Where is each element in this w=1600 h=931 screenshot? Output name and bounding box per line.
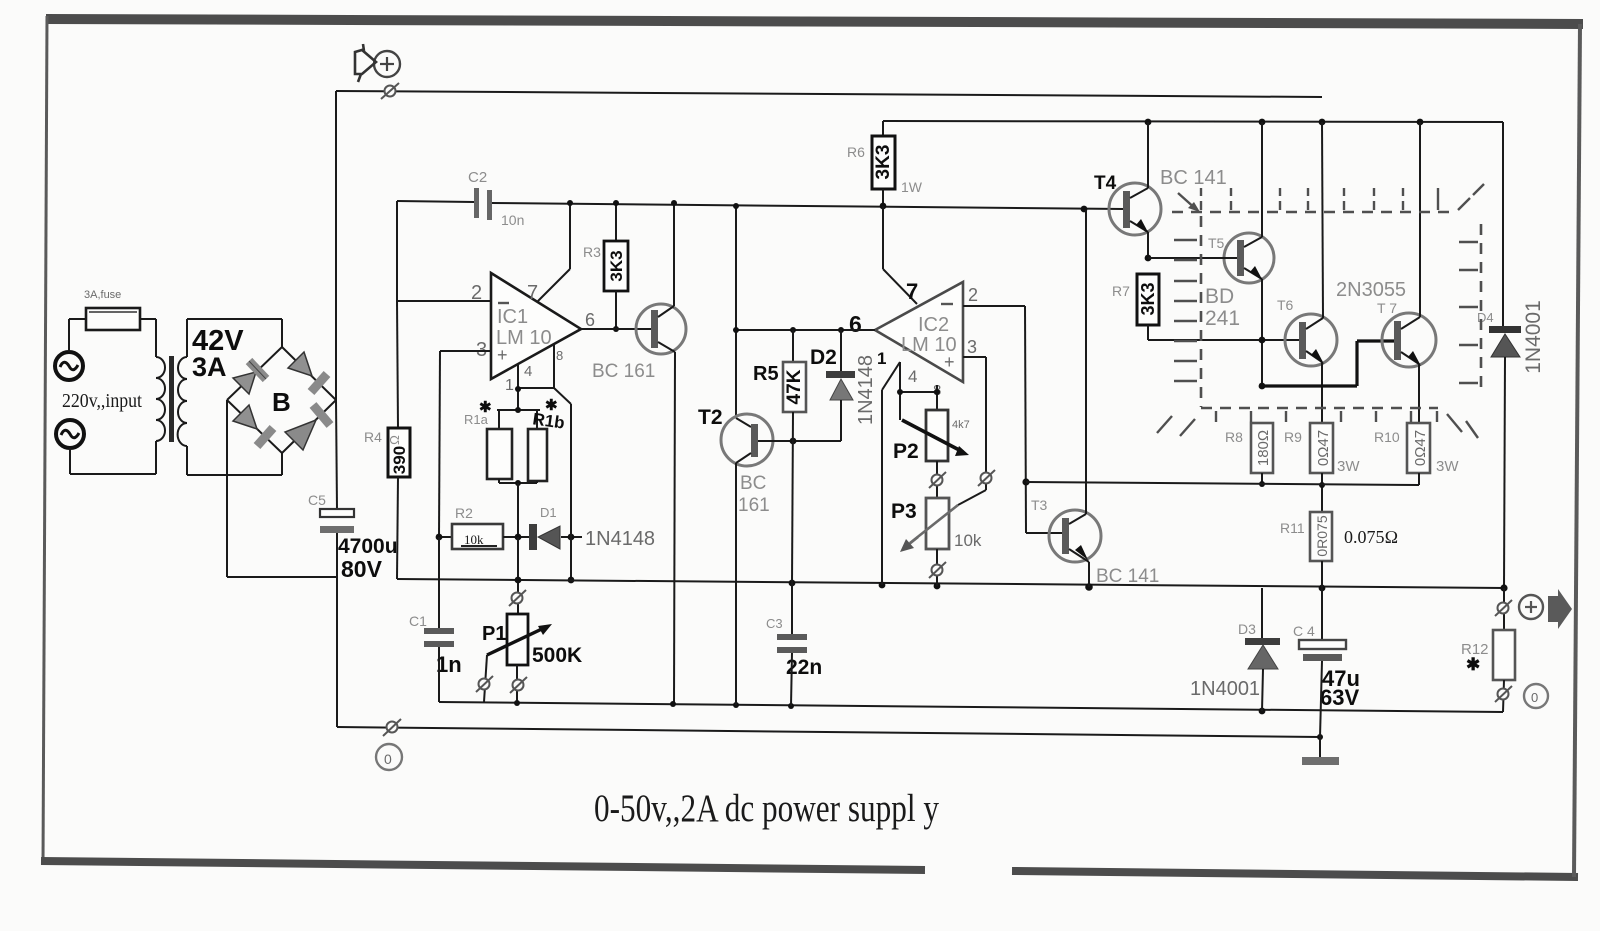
svg-text:3K3: 3K3 xyxy=(1138,282,1158,315)
svg-text:1N4148: 1N4148 xyxy=(585,528,655,550)
wire rail from C2 to T4 base xyxy=(492,203,1124,209)
svg-text:3K3: 3K3 xyxy=(873,145,894,180)
bridge diode bottom-right xyxy=(285,405,330,450)
terminal plus output xyxy=(1519,595,1543,619)
svg-text:10k: 10k xyxy=(464,532,484,547)
terminal 0 output xyxy=(1524,684,1548,708)
capacitor C2 10n xyxy=(468,169,524,228)
svg-text:63V: 63V xyxy=(1320,685,1359,710)
transformer core xyxy=(169,356,174,442)
svg-text:D1: D1 xyxy=(540,505,557,520)
svg-text:4700u: 4700u xyxy=(338,535,398,558)
potentiometer P1 500K xyxy=(476,537,582,702)
wire top rail xyxy=(336,91,1322,97)
svg-text:BC 161: BC 161 xyxy=(592,361,655,382)
capacitor C3 22n xyxy=(766,583,822,706)
resistor R10 0R47 3W xyxy=(1374,423,1459,485)
diode D3 1N4001 xyxy=(1190,588,1280,711)
wire C2 branch xyxy=(397,201,474,301)
resistor R9 0R47 3W xyxy=(1284,423,1360,512)
svg-text:Ω: Ω xyxy=(387,435,402,445)
svg-text:3A: 3A xyxy=(192,352,227,382)
svg-text:0-50v,,2A dc power suppl y: 0-50v,,2A dc power suppl y xyxy=(594,787,939,830)
wire T3 emitter to T4 base junction xyxy=(1085,210,1087,300)
wire IC1 output xyxy=(581,328,652,330)
wire IC2 pin3 xyxy=(958,357,995,505)
bridge diode top-right xyxy=(288,352,327,392)
svg-text:7: 7 xyxy=(527,282,538,304)
resistor R11 0R075 xyxy=(1280,512,1398,588)
fuse F1 3A xyxy=(69,289,156,330)
resistor R3 3K3 xyxy=(583,200,628,332)
wire rail 122 xyxy=(883,119,1503,126)
svg-text:3: 3 xyxy=(967,337,977,357)
bridge diode bottom-left xyxy=(233,405,273,446)
svg-text:2: 2 xyxy=(968,285,978,305)
svg-text:3W: 3W xyxy=(1436,458,1459,475)
svg-text:8: 8 xyxy=(556,348,563,363)
svg-text:R2: R2 xyxy=(455,505,473,521)
wire pin2 IC1 xyxy=(397,300,491,302)
svg-text:R11: R11 xyxy=(1280,520,1305,536)
transformer TR1 secondary xyxy=(178,357,187,446)
transistor T1 BC161 xyxy=(592,200,686,704)
svg-text:C 4: C 4 xyxy=(1293,623,1315,639)
svg-text:C5: C5 xyxy=(308,492,326,508)
wire IC2 pin1 to rail xyxy=(882,362,900,585)
svg-text:4: 4 xyxy=(908,367,917,386)
svg-text:6: 6 xyxy=(585,310,595,330)
svg-text:1: 1 xyxy=(877,349,886,368)
svg-text:T6: T6 xyxy=(1277,297,1294,313)
op-amp IC2 LM10 xyxy=(849,279,978,399)
transistor T3 BC141 xyxy=(1031,210,1159,587)
resistor R4 390 xyxy=(364,301,410,579)
diode D2 1N4148 xyxy=(810,330,877,441)
svg-text:BC 141: BC 141 xyxy=(1160,167,1227,189)
resistor R2 10k xyxy=(436,505,530,549)
svg-text:3A,fuse: 3A,fuse xyxy=(84,289,121,301)
wire T7 base path xyxy=(1262,341,1395,386)
connector slash top-left xyxy=(381,83,399,99)
svg-text:1W: 1W xyxy=(901,179,923,195)
svg-text:4: 4 xyxy=(524,363,532,380)
diode D1 1N4148 xyxy=(529,404,655,583)
wire IC2 pins 4-8 bus xyxy=(897,362,940,420)
AC source V2 xyxy=(56,420,84,474)
heatsink dashed outline xyxy=(1157,184,1484,438)
svg-text:P3: P3 xyxy=(891,500,917,523)
svg-text:3K3: 3K3 xyxy=(607,250,626,281)
input arrow symbol xyxy=(355,44,376,82)
svg-text:80V: 80V xyxy=(341,556,383,582)
svg-text:R3: R3 xyxy=(583,244,601,260)
svg-text:+: + xyxy=(944,352,955,372)
svg-text:B: B xyxy=(272,387,291,417)
svg-text:R9: R9 xyxy=(1284,429,1302,445)
svg-text:47K: 47K xyxy=(784,369,805,404)
svg-text:R8: R8 xyxy=(1225,429,1243,445)
terminal 0 left xyxy=(376,744,402,770)
wire pin7 IC1 xyxy=(538,200,573,301)
bridge rectifier B xyxy=(227,347,336,453)
wire emitter rail xyxy=(1026,482,1419,485)
svg-text:6: 6 xyxy=(849,311,862,337)
svg-text:220v,,input: 220v,,input xyxy=(62,390,142,412)
svg-text:C2: C2 xyxy=(468,169,487,186)
connector slash 0V left xyxy=(383,719,401,736)
page frame (decorative) xyxy=(46,19,1583,24)
transistor T7 2N3055 xyxy=(1336,122,1436,423)
svg-text:BD: BD xyxy=(1205,285,1234,308)
svg-text:IC1: IC1 xyxy=(497,306,528,328)
svg-text:T3: T3 xyxy=(1031,497,1048,513)
bridge diode top-left xyxy=(233,361,266,394)
ground xyxy=(1302,737,1339,765)
svg-text:7: 7 xyxy=(906,279,918,304)
svg-text:✱: ✱ xyxy=(1466,655,1480,674)
svg-text:390: 390 xyxy=(390,446,409,474)
svg-text:4k7: 4k7 xyxy=(952,419,970,431)
wire feedback rail xyxy=(397,577,1504,592)
svg-text:R6: R6 xyxy=(847,144,865,160)
svg-text:C3: C3 xyxy=(766,616,783,631)
svg-text:R10: R10 xyxy=(1374,429,1400,445)
wire 0V rail xyxy=(337,727,1323,740)
svg-text:BC: BC xyxy=(740,473,766,494)
svg-text:R5: R5 xyxy=(753,363,779,385)
terminal plus top-left xyxy=(374,51,400,77)
svg-text:10k: 10k xyxy=(954,531,982,550)
svg-text:0Ω47: 0Ω47 xyxy=(1315,430,1332,466)
svg-text:R1a: R1a xyxy=(464,412,489,427)
wire secondary top xyxy=(187,319,282,357)
resistor R7 3K3 xyxy=(1112,274,1300,340)
wire main left vertical rail xyxy=(336,91,337,727)
svg-text:R7: R7 xyxy=(1112,283,1130,299)
resistor R8 180 xyxy=(1225,423,1273,487)
op-amp IC1 LM10 xyxy=(471,273,595,394)
output arrow symbol xyxy=(1548,589,1572,629)
svg-text:0: 0 xyxy=(384,751,392,767)
transformer TR1 primary xyxy=(156,357,165,441)
svg-text:T4: T4 xyxy=(1094,173,1117,194)
wire secondary bottom xyxy=(187,446,282,475)
capacitor C5 4700u 80V xyxy=(308,492,398,582)
svg-text:0R075: 0R075 xyxy=(1314,515,1330,556)
svg-text:IC2: IC2 xyxy=(918,314,949,336)
resistor R12 xyxy=(1461,584,1515,712)
svg-text:2N3055: 2N3055 xyxy=(1336,279,1406,301)
AC source V1 xyxy=(55,319,83,380)
svg-text:2: 2 xyxy=(471,282,482,304)
svg-text:10n: 10n xyxy=(501,212,524,228)
svg-text:C1: C1 xyxy=(409,613,427,629)
wire pins 1-4-8 strip IC1 xyxy=(515,344,571,410)
transistor T6 2N3055 xyxy=(1277,122,1337,423)
svg-text:0Ω47: 0Ω47 xyxy=(1412,430,1429,466)
potentiometer P3 10k xyxy=(891,498,982,586)
resistor R6 3K3 1W xyxy=(847,121,923,209)
svg-text:D2: D2 xyxy=(810,346,837,369)
resistor R1a xyxy=(464,399,540,483)
svg-text:161: 161 xyxy=(738,495,770,516)
svg-text:0.075Ω: 0.075Ω xyxy=(1344,527,1398,547)
svg-text:1N4001: 1N4001 xyxy=(1522,300,1545,374)
svg-text:T 7: T 7 xyxy=(1377,300,1397,316)
svg-text:T2: T2 xyxy=(698,406,723,429)
wire IC2 pin2 to T3 xyxy=(963,306,1063,533)
svg-text:500K: 500K xyxy=(532,644,582,667)
wire pin3 IC1 xyxy=(439,351,491,537)
svg-text:1N4001: 1N4001 xyxy=(1190,678,1260,700)
svg-text:D3: D3 xyxy=(1238,621,1256,637)
label 42V 3A xyxy=(192,325,244,382)
svg-text:+: + xyxy=(497,345,508,365)
capacitor C4 47u 63V xyxy=(1293,588,1360,737)
svg-text:1: 1 xyxy=(505,377,514,394)
resistor R1b xyxy=(499,397,566,537)
wire pin7 IC2 xyxy=(883,206,917,304)
wire T2 emitter column xyxy=(733,203,751,427)
svg-text:0: 0 xyxy=(1531,690,1538,705)
svg-text:180Ω: 180Ω xyxy=(1255,430,1272,466)
svg-text:T5: T5 xyxy=(1208,235,1225,251)
wire primary loop xyxy=(70,319,156,474)
transistor T5 BD241 xyxy=(1148,122,1274,389)
svg-text:241: 241 xyxy=(1205,307,1240,330)
resistor R5 47K xyxy=(753,330,806,583)
svg-text:3W: 3W xyxy=(1337,458,1360,475)
wire internal rail xyxy=(439,700,1503,714)
wire pin6 IC2 xyxy=(736,327,875,333)
diode D4 1N4001 xyxy=(1477,122,1545,588)
svg-text:1N4148: 1N4148 xyxy=(855,355,877,425)
svg-text:D4: D4 xyxy=(1477,310,1494,325)
wire bridge minus down xyxy=(227,400,337,577)
transistor T4 BC141 xyxy=(1081,122,1227,261)
svg-text:P2: P2 xyxy=(893,440,919,463)
transistor T2 BC161 xyxy=(698,406,841,705)
svg-text:P1: P1 xyxy=(482,623,506,645)
potentiometer P2 4k7 xyxy=(893,410,970,498)
svg-text:R4: R4 xyxy=(364,429,382,445)
svg-text:BC 141: BC 141 xyxy=(1096,566,1159,587)
capacitor C1 1n xyxy=(409,537,462,702)
